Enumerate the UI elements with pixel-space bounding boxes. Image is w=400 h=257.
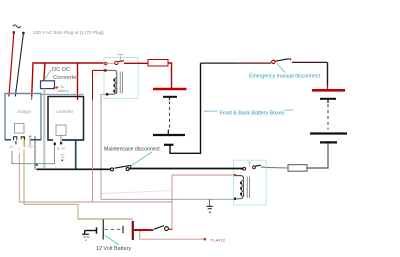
12V battery positive plate (dark red) xyxy=(132,221,134,240)
wire pink from charger terminal to low-voltage bus xyxy=(19,154,172,203)
wire from fuse F2 to relay K2 contact xyxy=(266,166,288,169)
DC-DC converter box U1 xyxy=(41,81,55,89)
svg-text:Front & Back Battery Boxes: Front & Back Battery Boxes xyxy=(220,110,285,116)
wire red top rail xyxy=(32,63,105,97)
wire 12V positive thick red xyxy=(134,229,151,231)
relay K1 core xyxy=(120,72,122,94)
relay K2 contact wire-end dot xyxy=(241,168,243,170)
wire teal from controller bottom xyxy=(62,139,84,141)
svg-text:battery: battery xyxy=(58,89,69,93)
controller box xyxy=(48,97,84,141)
wire pink riser continuation xyxy=(92,100,94,202)
svg-text:Converter: Converter xyxy=(53,75,79,81)
junction dot on 12V positive xyxy=(139,229,141,231)
wire red rail after contact to fuse xyxy=(124,62,148,64)
battery bank 1 bottom short plate xyxy=(164,144,174,146)
callout line emergency disconnect xyxy=(277,64,285,73)
svg-text:controller: controller xyxy=(56,109,74,114)
relay K2 contact blade xyxy=(256,164,262,167)
wire AC neutral (black) into charger xyxy=(15,34,23,96)
wire green linking charger and controller terminals xyxy=(12,145,55,164)
fuse F1 xyxy=(148,60,168,67)
faint wire ghost above 12V bus xyxy=(102,191,173,194)
main negative line with maintenance disconnect xyxy=(36,168,110,170)
callout line to DC-DC converter xyxy=(44,70,51,81)
charger terminal stub 3 xyxy=(28,136,31,146)
relay K1 coil xyxy=(113,74,116,94)
wire top black to emergency disconnect xyxy=(201,62,238,64)
charger box bottom teal edge segments xyxy=(5,139,11,141)
battery bank 2 bottom short plate xyxy=(320,141,337,143)
To AV12 end dot xyxy=(204,238,206,240)
controller terminal B xyxy=(60,135,62,143)
relay K1 contact blade xyxy=(118,61,124,62)
wire tan from charger terminal to 12V battery area xyxy=(24,150,133,220)
callout line maintenance disconnect xyxy=(130,152,152,167)
relay K1 enclosure (cyan box) xyxy=(104,58,138,99)
wire gray from DC-DC down between boxes xyxy=(43,89,45,168)
battery bank 2 short plate xyxy=(320,98,336,100)
12V battery negative cap xyxy=(96,227,98,233)
svg-text:Emergency manual disconnect: Emergency manual disconnect xyxy=(249,74,320,80)
wire battery bank 2 negative down to fuse line xyxy=(307,144,328,169)
svg-text:B- B+: B- B+ xyxy=(57,147,66,151)
wire teal drop to main negative line xyxy=(75,140,77,169)
AC source tilde symbol xyxy=(13,25,21,28)
relay K1 contact actuator tick xyxy=(117,55,124,61)
label To battery with red arrow xyxy=(53,86,58,88)
wire red feed to relay K1 coil xyxy=(104,69,107,72)
ground symbol on 12V bus xyxy=(207,199,213,213)
svg-text:charger: charger xyxy=(17,109,32,114)
wire battery bank 1 negative to disconnect riser xyxy=(170,63,201,153)
wire ground bus (12V negative) xyxy=(101,198,235,200)
battery bank 2 (right) positive plate xyxy=(312,89,345,92)
12V battery mid cap xyxy=(122,226,124,233)
wire after emergency disconnect to battery bank 2 xyxy=(292,61,328,63)
svg-text:-A2: -A2 xyxy=(9,145,14,149)
wire gray stub from charger down to main negative line xyxy=(34,136,36,169)
charger box xyxy=(5,94,41,140)
charger terminal staple 1 xyxy=(14,137,17,141)
relay K2 core xyxy=(247,177,249,199)
wire salmon riser to 12V switch xyxy=(171,175,173,229)
12V battery dashed cells xyxy=(105,228,122,230)
12V battery ground symbol xyxy=(82,231,90,241)
12V battery long plate xyxy=(102,220,104,240)
svg-text:220 V AC from Plug or (L772 Pl: 220 V AC from Plug or (L772 Plug) xyxy=(33,30,104,35)
relay K2 contact actuator tick xyxy=(248,162,251,166)
wire from K1 coil to ground bus (gray, long vertical) xyxy=(101,94,106,199)
controller terminal A xyxy=(54,143,56,145)
relay K2 enclosure (cyan box) xyxy=(234,160,267,205)
charger AC input terminal (orange tail) xyxy=(31,97,33,101)
AC source terminal dots xyxy=(13,31,15,34)
callout line 12V battery xyxy=(105,236,119,246)
12V switch xyxy=(151,229,154,232)
svg-text:+: + xyxy=(112,88,114,92)
charger terminal staple 2 xyxy=(21,137,24,140)
label front and back battery boxes xyxy=(204,110,218,112)
wire red from fuse F1 down to battery bank 1 xyxy=(168,63,172,89)
wire salmon feed to relay K2 coil xyxy=(234,174,237,177)
battery bank 2 dashed link xyxy=(327,104,329,130)
wire red drop to DC-DC converter xyxy=(44,63,45,81)
svg-text:Maintencace disconnect: Maintencace disconnect xyxy=(104,147,160,153)
relay K2 coil bottom junction dot xyxy=(237,195,244,199)
wire slate from charger top corner to right xyxy=(41,93,84,95)
wire AC hot (red) into charger xyxy=(9,34,14,97)
wire to relay K2 coil from junction xyxy=(236,176,244,179)
svg-text:12 Volt Battery: 12 Volt Battery xyxy=(96,246,131,252)
svg-text:DC DC: DC DC xyxy=(52,67,70,73)
battery bank 1 long plate xyxy=(153,134,185,136)
emergency manual disconnect switch xyxy=(272,60,275,63)
wire red drop to controller xyxy=(77,63,79,100)
svg-text:+12: +12 xyxy=(28,145,34,149)
maintenance disconnect switch xyxy=(111,168,114,171)
wire red K1 coil feed riser (left) xyxy=(92,70,94,100)
fuse F2 xyxy=(288,165,307,172)
wire to relay K1 coil from junction xyxy=(106,70,117,73)
green wire-end dot on main line xyxy=(36,164,38,166)
relay K1 contact circles on red rail xyxy=(105,62,107,64)
battery bank 1 (middle) positive plate xyxy=(153,88,187,91)
relay K2 contact circles xyxy=(243,167,246,170)
charger internal block xyxy=(15,124,25,134)
controller internal block xyxy=(56,125,66,136)
wire ground to 12V battery negative cap xyxy=(85,230,96,232)
battery bank 1 short plate xyxy=(163,96,177,98)
battery bank 2 long plate xyxy=(310,132,347,134)
relay K1 coil bottom junction dot xyxy=(108,91,117,95)
relay K2 coil xyxy=(240,179,243,197)
wire to AV12 tap xyxy=(140,232,204,240)
battery bank 1 dashed link xyxy=(169,101,171,130)
svg-text:To AV12: To AV12 xyxy=(211,237,226,242)
wire switch to salmon riser xyxy=(169,228,173,230)
